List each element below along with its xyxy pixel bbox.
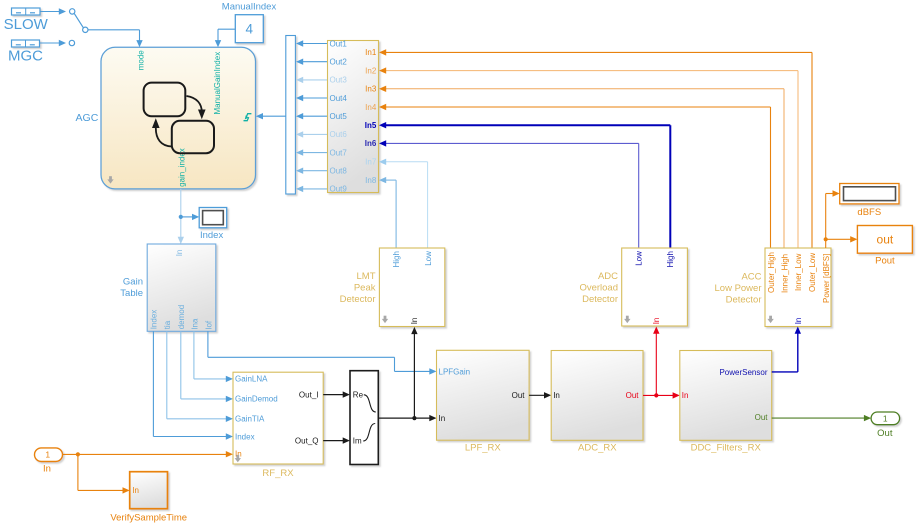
svg-text:Im: Im xyxy=(353,436,362,445)
wire mux to AGC trigger xyxy=(256,113,286,119)
svg-text:Out: Out xyxy=(755,413,769,422)
svg-text:In: In xyxy=(410,318,419,325)
svg-text:1: 1 xyxy=(45,450,50,460)
badge ADC detector xyxy=(624,316,630,323)
switch pole 1 xyxy=(70,9,75,14)
wire ManualIndex to AGC xyxy=(215,29,236,47)
svg-text:Peak: Peak xyxy=(354,283,376,294)
svg-text:Out8: Out8 xyxy=(330,167,348,176)
svg-text:ADC: ADC xyxy=(598,271,618,282)
wire gain_index xyxy=(178,189,184,244)
label LMT Peak Detector xyxy=(340,271,376,305)
wire In4 xyxy=(379,104,771,248)
wire In to VerifySampleTime xyxy=(78,454,130,493)
svg-text:Gain: Gain xyxy=(123,277,143,288)
svg-text:SLOW: SLOW xyxy=(4,16,49,33)
svg-text:dBFS: dBFS xyxy=(857,207,881,218)
svg-text:Out: Out xyxy=(512,391,526,400)
svg-text:In5: In5 xyxy=(365,121,377,130)
badge LMT xyxy=(382,316,388,323)
svg-text:VerifySampleTime: VerifySampleTime xyxy=(110,513,187,524)
junction Power dBFS xyxy=(824,237,828,241)
switch lever xyxy=(74,14,83,28)
svg-text:Detector: Detector xyxy=(340,294,376,305)
chart AGC xyxy=(101,47,256,189)
block DDC_Filters_RX xyxy=(680,351,772,441)
svg-text:Out5: Out5 xyxy=(330,112,348,121)
wire lof to LPFGain xyxy=(208,331,437,374)
svg-text:ManualGainIndex: ManualGainIndex xyxy=(213,52,222,115)
svg-text:Index: Index xyxy=(150,310,159,330)
svg-text:LPF_RX: LPF_RX xyxy=(465,443,502,454)
svg-text:In: In xyxy=(439,414,446,423)
junction ADC out xyxy=(654,393,658,397)
block LMT Peak Detector xyxy=(379,248,444,327)
wire to LMT In xyxy=(411,327,417,418)
junction complex xyxy=(412,416,416,420)
svg-text:ACC: ACC xyxy=(741,271,761,282)
svg-text:High: High xyxy=(392,251,401,267)
svg-text:Inner_High: Inner_High xyxy=(781,254,790,293)
svg-text:LPFGain: LPFGain xyxy=(439,367,471,376)
inport In xyxy=(35,448,63,462)
wire Out4 to mux xyxy=(296,95,328,101)
svg-text:lof: lof xyxy=(204,320,213,329)
wire In7 xyxy=(379,159,428,248)
svg-text:In: In xyxy=(175,250,184,257)
chart trigger icon xyxy=(244,114,252,121)
svg-text:Pout: Pout xyxy=(875,256,895,267)
svg-text:In8: In8 xyxy=(365,176,377,185)
svg-text:In3: In3 xyxy=(365,85,377,94)
svg-text:Out: Out xyxy=(626,391,640,400)
wire Out8 to mux xyxy=(296,168,328,174)
svg-text:Out2: Out2 xyxy=(330,58,348,67)
badge ACC detector xyxy=(767,316,773,323)
svg-text:lna: lna xyxy=(190,318,199,329)
block VerifySampleTime xyxy=(130,472,168,509)
wire Index to RF_RX xyxy=(153,331,233,439)
wire PowerSensor to ACC In xyxy=(772,327,801,372)
wire Out6 to mux xyxy=(296,131,328,137)
svg-text:In: In xyxy=(43,464,51,475)
wire to Pout xyxy=(826,236,858,242)
svg-text:Low Power: Low Power xyxy=(715,283,762,294)
mux block xyxy=(286,36,296,195)
wire tia to RF_RX xyxy=(167,331,233,422)
svg-text:Outer_High: Outer_High xyxy=(767,252,776,293)
outport Pout xyxy=(857,226,912,254)
svg-text:demod: demod xyxy=(177,305,186,329)
block RF_RX xyxy=(233,372,323,464)
wire Out_Q to Im xyxy=(323,437,350,443)
wire Power dBFS xyxy=(826,190,840,248)
block ADC_RX xyxy=(551,351,643,441)
svg-text:mode: mode xyxy=(136,50,145,71)
svg-text:Detector: Detector xyxy=(582,294,618,305)
junction gain_index xyxy=(179,215,183,219)
svg-text:In2: In2 xyxy=(365,66,377,75)
transition state2 to state1 xyxy=(152,118,172,146)
badge RF_RX xyxy=(235,455,241,462)
svg-text:ManualIndex: ManualIndex xyxy=(222,2,277,13)
svg-text:Out6: Out6 xyxy=(330,130,348,139)
wire demod to RF_RX xyxy=(181,331,233,402)
wire Out3 to mux xyxy=(296,77,328,83)
svg-text:Out_I: Out_I xyxy=(299,391,319,400)
transition state1 to state2 xyxy=(187,96,206,119)
block LPF_RX xyxy=(437,350,530,440)
svg-text:Out1: Out1 xyxy=(330,39,348,48)
svg-text:In: In xyxy=(682,391,689,400)
wire ADC_RX to DDC xyxy=(643,392,680,398)
block ADC Overload Detector xyxy=(622,248,688,326)
wire In1 xyxy=(379,49,812,248)
state 1 xyxy=(144,83,186,117)
svg-text:In7: In7 xyxy=(365,158,377,167)
wire to ADC Overload In xyxy=(653,327,659,396)
svg-text:Out_Q: Out_Q xyxy=(295,437,319,446)
state 2 xyxy=(172,121,214,153)
constant block SLOW xyxy=(12,8,41,15)
svg-text:In: In xyxy=(794,318,803,325)
chart badge xyxy=(107,176,113,183)
svg-text:ADC_RX: ADC_RX xyxy=(578,443,617,454)
svg-text:In6: In6 xyxy=(365,139,377,148)
block ACC Low Power Detector xyxy=(765,248,831,327)
subsystem monitor xyxy=(328,41,379,193)
svg-text:GainDemod: GainDemod xyxy=(235,395,278,404)
label Gain Table xyxy=(120,277,143,300)
block RealImag to Complex xyxy=(350,371,378,465)
wire Out7 to mux xyxy=(296,149,328,155)
wire DDC Out to Out port xyxy=(772,415,871,421)
svg-text:tia: tia xyxy=(163,320,172,329)
svg-text:Power [dBFS]: Power [dBFS] xyxy=(822,254,831,303)
wire In6 xyxy=(379,140,639,248)
svg-text:In4: In4 xyxy=(365,103,377,112)
constant block MGC xyxy=(12,40,40,47)
svg-text:Out: Out xyxy=(877,428,893,439)
svg-text:In: In xyxy=(553,391,560,400)
switch common xyxy=(83,27,88,32)
svg-text:Out9: Out9 xyxy=(330,185,348,194)
junction In xyxy=(76,452,80,456)
wire In8 xyxy=(379,177,396,248)
wire In2 xyxy=(379,67,798,248)
wire lna to RF_RX xyxy=(194,331,233,382)
svg-text:High: High xyxy=(666,251,675,267)
svg-text:Index: Index xyxy=(235,432,255,441)
wire Out_I to Re xyxy=(323,391,350,397)
wire SLOW to switch xyxy=(40,8,66,14)
svg-text:Inner_Low: Inner_Low xyxy=(794,253,803,291)
svg-text:AGC: AGC xyxy=(76,112,99,124)
constant block ManualIndex value 4 xyxy=(235,15,263,43)
wire In to RF_RX xyxy=(63,451,234,457)
wire to Index display xyxy=(181,214,199,220)
svg-text:Outer_Low: Outer_Low xyxy=(808,253,817,292)
svg-text:1: 1 xyxy=(883,413,888,423)
svg-text:out: out xyxy=(877,233,894,247)
svg-text:Out7: Out7 xyxy=(330,148,348,157)
wire Out2 to mux xyxy=(296,59,328,65)
svg-text:GainLNA: GainLNA xyxy=(235,375,268,384)
wire complex to LPF_RX xyxy=(378,415,436,421)
svg-text:MGC: MGC xyxy=(8,48,43,65)
svg-text:PowerSensor: PowerSensor xyxy=(719,368,767,377)
wire Out5 to mux xyxy=(296,113,328,119)
svg-text:Table: Table xyxy=(120,288,143,299)
svg-text:LMT: LMT xyxy=(357,271,376,282)
display dBFS xyxy=(840,184,899,204)
wire Out1 to mux xyxy=(296,40,328,46)
wire In5 xyxy=(379,122,670,248)
label ACC Low Power Detector xyxy=(715,271,762,305)
label ADC Overload Detector xyxy=(579,271,618,305)
svg-text:Low: Low xyxy=(635,251,644,266)
block Gain Table xyxy=(147,244,216,331)
svg-text:In1: In1 xyxy=(365,48,377,57)
wire LPF_RX to ADC_RX xyxy=(529,392,551,398)
svg-text:Detector: Detector xyxy=(726,294,762,305)
display Index xyxy=(199,208,227,228)
svg-text:Overload: Overload xyxy=(579,283,618,294)
wire switch to AGC mode input xyxy=(88,30,143,48)
svg-text:In: In xyxy=(132,486,139,495)
svg-text:Out4: Out4 xyxy=(330,94,348,103)
outport Out xyxy=(871,412,900,425)
switch pole 2 xyxy=(69,40,74,45)
svg-text:In: In xyxy=(652,318,661,325)
svg-text:GainTIA: GainTIA xyxy=(235,415,265,424)
svg-text:Out3: Out3 xyxy=(330,76,348,85)
svg-text:Low: Low xyxy=(424,251,433,266)
svg-text:RF_RX: RF_RX xyxy=(262,468,294,479)
wire Out9 to mux xyxy=(296,186,328,192)
svg-text:4: 4 xyxy=(246,22,254,37)
wire MGC to switch pole 2 xyxy=(40,40,67,46)
wire In3 xyxy=(379,86,784,248)
svg-text:Index: Index xyxy=(200,230,223,241)
svg-text:DDC_Filters_RX: DDC_Filters_RX xyxy=(691,443,762,454)
svg-text:Re: Re xyxy=(353,390,364,399)
